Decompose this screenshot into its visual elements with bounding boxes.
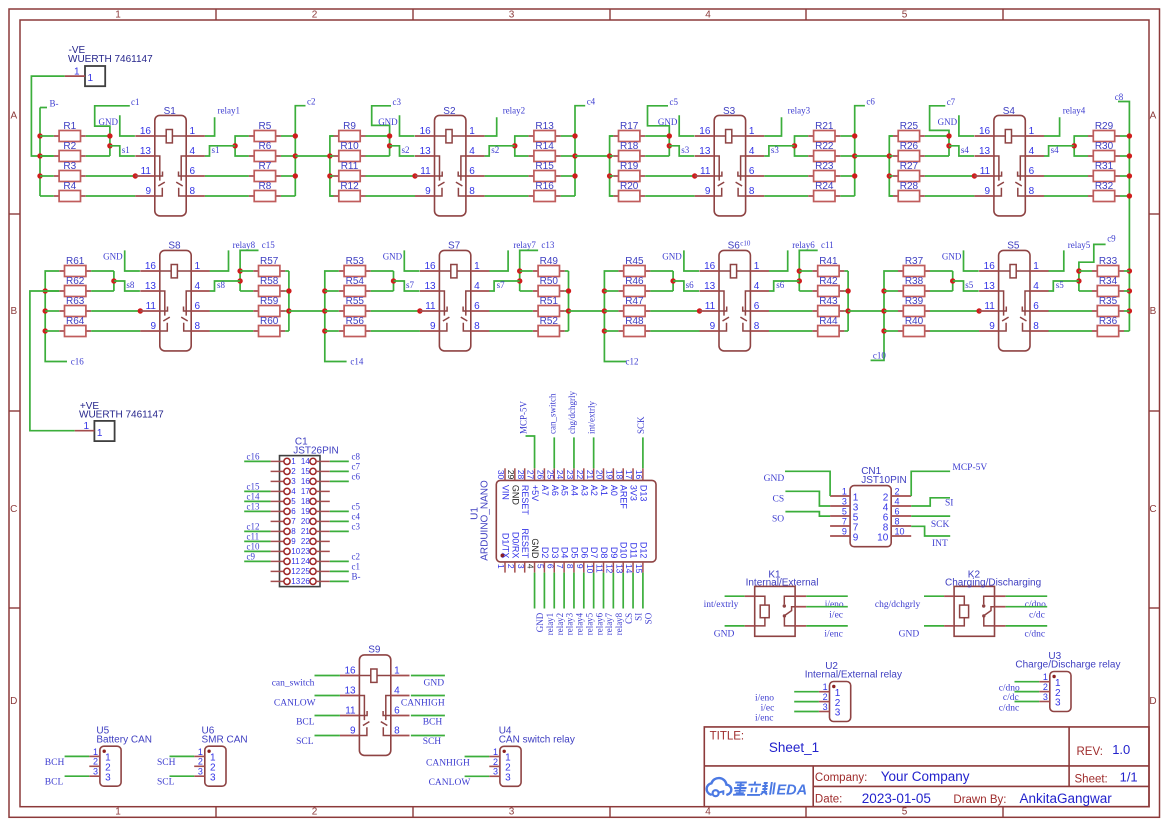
junction [286,288,291,293]
svg-text:D8: D8 [599,547,609,559]
resistor R46 [618,276,650,297]
junction [602,288,607,293]
svg-text:can_switch: can_switch [272,679,315,689]
svg-text:6: 6 [895,507,900,517]
svg-text:11: 11 [595,564,605,573]
svg-text:6: 6 [545,564,555,569]
resistor R56 [339,316,371,337]
svg-text:R33: R33 [1099,256,1118,267]
wire to pin 11 [645,175,695,177]
junction [697,308,702,313]
svg-text:R6: R6 [259,141,272,152]
svg-text:5: 5 [842,507,847,517]
svg-text:R50: R50 [540,276,559,287]
resistor R37 [898,256,930,277]
pin 14 C1 [301,457,330,466]
svg-text:Battery CAN: Battery CAN [96,734,152,745]
svg-text:CANLOW: CANLOW [429,778,471,788]
pin 3 CN1 [830,497,859,514]
svg-text:6: 6 [195,301,201,312]
svg-text:22: 22 [575,470,585,480]
wire s5 to pin 4 [1049,281,1079,291]
svg-text:2: 2 [312,807,318,818]
pin 17 U1 [624,468,638,501]
junction [1127,173,1132,178]
svg-text:13: 13 [344,686,356,697]
svg-text:BCL: BCL [296,718,315,728]
svg-text:3: 3 [198,767,203,777]
junction [845,288,850,293]
wire net c9 [244,560,270,562]
svg-text:relay3: relay3 [788,106,811,116]
svg-text:s2: s2 [491,145,499,155]
wire GND to pin 16 [959,115,974,136]
svg-text:A6: A6 [550,485,560,496]
pin 26 C1 [301,577,330,586]
wire resistor left pins [610,135,614,137]
wire pin 6 to R [485,175,529,177]
resistor R55 [339,296,371,317]
svg-text:A0: A0 [609,485,619,496]
svg-text:8: 8 [749,186,755,197]
svg-text:s7: s7 [497,280,506,290]
wire net SCH [411,735,445,737]
junction [667,133,672,138]
svg-text:A5: A5 [560,485,570,496]
wire left bus to c14 [325,271,347,362]
junction [237,278,242,283]
wire pin 8 to R [485,195,529,197]
junction [887,153,892,158]
svg-text:D4: D4 [560,547,570,559]
pin 10 CN1 [877,527,911,544]
svg-text:1: 1 [394,666,400,677]
wire link to next block [855,155,890,157]
svg-text:GND: GND [378,117,398,127]
svg-text:16: 16 [301,477,310,486]
svg-text:13: 13 [984,281,996,292]
pin 25 C1 [301,567,330,576]
wire net chg/dchgrly [924,595,944,597]
svg-text:D: D [10,696,17,707]
pin 20 C1 [301,517,330,526]
svg-text:R24: R24 [815,181,834,192]
svg-text:3: 3 [210,772,216,783]
pin 12 U1 [604,547,618,574]
svg-text:11: 11 [141,166,152,177]
pin 2 CN1 [883,487,911,504]
wire s1 to pin 4 [205,146,235,156]
wire net c5 [648,106,670,156]
junction [293,133,298,138]
svg-text:c15: c15 [247,482,260,492]
wire right bus [288,271,290,331]
wire pin 8 to R [764,195,808,197]
svg-text:c/dnc: c/dnc [999,703,1020,713]
resistor R19 [613,161,645,182]
wire pin 6 to R [1044,175,1088,177]
wire net c9 [1079,244,1106,291]
junction [417,308,422,313]
wire left bus to c10 [871,271,898,360]
svg-text:GND: GND [942,251,962,261]
svg-text:8: 8 [1033,321,1039,332]
wire pin 6 to R [1049,310,1093,312]
wire R right pins [565,270,569,272]
svg-text:c8: c8 [1115,92,1124,102]
svg-text:6: 6 [754,301,760,312]
svg-text:R25: R25 [900,121,919,132]
resistor R23 [808,161,840,182]
junction [391,278,396,283]
wire [465,775,490,777]
wire R right pins [281,135,295,137]
svg-text:c11: c11 [247,532,260,542]
wire R right pins [561,135,575,137]
wire net relay1 [543,573,545,609]
wire resistor left pins [325,290,339,292]
wire net c15 [244,490,270,492]
wire GND to pin 16 [679,115,694,136]
relay K1 [746,570,819,637]
svg-text:1: 1 [842,487,847,497]
junction [37,173,42,178]
pin 18 U1 [614,468,628,509]
wire net MCP-5V [526,436,535,468]
svg-text:i/enc: i/enc [824,630,842,640]
resistor R53 [339,256,371,277]
svg-text:R59: R59 [260,296,279,307]
wire to pin 11 [86,175,136,177]
svg-text:1: 1 [754,261,760,272]
pin 11 C1 [271,557,301,566]
junction [133,173,138,178]
wire net CANHIGH [411,695,445,697]
wire net i/ec [795,606,806,608]
svg-text:R39: R39 [905,296,924,307]
resistor R62 [59,276,91,297]
svg-text:c3: c3 [393,97,402,107]
svg-text:A3: A3 [579,485,589,496]
svg-text:c/dno: c/dno [999,683,1020,693]
svg-text:16: 16 [420,126,432,137]
svg-text:int/extrly: int/extrly [704,600,739,610]
wire R to junction [645,135,669,137]
svg-text:c/dno: c/dno [1025,600,1046,610]
svg-text:3: 3 [105,772,111,783]
wire link to next block [575,155,610,157]
svg-text:6: 6 [1033,301,1039,312]
svg-text:22: 22 [301,537,310,546]
wire to pin 11 [650,310,699,312]
resistor R2 [54,141,86,162]
logo JLC EDA [707,778,807,798]
svg-text:c/dc: c/dc [1029,610,1045,620]
wire net B- [330,580,349,582]
pin 8 C1 [271,527,297,536]
svg-text:16: 16 [699,126,711,137]
svg-text:Internal/External relay: Internal/External relay [805,670,902,681]
wire net BCH [411,715,445,717]
resistor R45 [618,256,650,277]
svg-text:R62: R62 [66,276,85,287]
resistor R9 [334,121,366,142]
svg-text:R26: R26 [900,141,919,152]
svg-text:A: A [10,111,17,122]
svg-text:10: 10 [585,564,595,574]
pin 6 U1 [545,547,559,573]
pin 9 U1 [575,547,589,573]
resistor R13 [529,121,561,142]
svg-text:B-: B- [50,99,59,109]
pin 24 C1 [301,557,330,566]
junction [976,308,981,313]
svg-text:13: 13 [699,146,711,157]
wire net SO [785,512,830,516]
svg-text:3: 3 [842,497,847,507]
svg-text:16: 16 [145,261,157,272]
pin 4 C1 [271,487,297,496]
wire to pin 9 [930,330,979,332]
svg-text:s3: s3 [681,145,690,155]
junction [293,173,298,178]
svg-text:C: C [1149,504,1156,515]
wire net relay5 [1049,250,1064,271]
wire [794,701,819,703]
svg-text:AREF: AREF [619,485,629,510]
pin 14 U1 [624,543,638,574]
wire net c8 bus [1118,102,1129,332]
svg-text:c3: c3 [352,522,361,532]
svg-text:3: 3 [1055,698,1061,709]
svg-text:6: 6 [190,166,196,177]
wire pin 6 to R [489,310,533,312]
wire [465,756,490,758]
wire [65,755,90,757]
svg-text:1: 1 [198,747,203,757]
junction [293,153,298,158]
svg-text:23: 23 [565,470,575,480]
svg-text:INT: INT [932,539,948,549]
svg-text:1: 1 [469,126,475,137]
wire pin 8 to R [489,330,533,332]
svg-text:c9: c9 [1107,234,1116,244]
title block [704,727,1149,807]
svg-text:2: 2 [93,757,98,767]
wire net relay3 [764,117,781,136]
wire pin 8 to R [1049,330,1093,332]
pin 5 C1 [271,497,297,506]
svg-text:8: 8 [1029,186,1035,197]
svg-text:R41: R41 [819,256,838,267]
wire net SCK [642,437,644,468]
resistor R44 [812,316,844,337]
svg-text:relay1: relay1 [218,106,241,116]
pin 26 U1 [536,468,550,496]
svg-text:Internal/External: Internal/External [746,578,819,589]
wire R to junction [86,135,110,137]
wire to pin 9 [645,195,695,197]
junction [667,143,672,148]
svg-text:D11: D11 [629,543,639,559]
svg-text:s1: s1 [212,145,220,155]
wire [794,691,819,693]
wire R right pins [285,270,289,272]
pin 10 C1 [271,547,301,556]
junction [37,153,42,158]
svg-text:2: 2 [493,757,498,767]
svg-text:3V3: 3V3 [629,485,639,501]
wire R right pins [844,270,848,272]
svg-text:13: 13 [704,281,716,292]
svg-text:BCL: BCL [45,778,64,788]
svg-text:R34: R34 [1099,276,1118,287]
wire net c4 [330,520,349,522]
junction [232,143,237,148]
svg-text:s4: s4 [961,145,970,155]
svg-text:8: 8 [474,321,480,332]
svg-text:SCK: SCK [931,520,950,530]
svg-text:MCP-5V: MCP-5V [519,400,529,434]
junction [327,173,332,178]
svg-text:4: 4 [705,10,711,21]
junction [852,133,857,138]
resistor R26 [893,141,925,162]
wire net c10 [244,550,270,552]
wire to pin 9 [86,195,136,197]
svg-text:GND: GND [103,251,123,261]
resistor R4 [54,181,86,202]
wire link to next block [569,310,605,312]
wire resistor left pins [889,135,893,137]
svg-text:GND: GND [424,679,445,689]
svg-text:10: 10 [291,547,300,556]
pin 28 U1 [516,468,530,515]
svg-text:1: 1 [1029,126,1035,137]
wire R right pins [840,135,854,137]
junction [517,278,522,283]
wire pin 8 to R [210,330,254,332]
svg-text:s7: s7 [406,280,415,290]
junction [797,278,802,283]
pin 8 U1 [565,547,579,573]
pin 16 U1 [634,468,648,501]
svg-text:s5: s5 [965,280,974,290]
svg-text:13: 13 [291,577,300,586]
pin 22 U1 [575,468,589,496]
svg-text:D9: D9 [609,547,619,559]
wire net c6 [330,480,349,482]
svg-text:GND: GND [535,612,545,632]
svg-text:s6: s6 [776,280,785,290]
svg-text:VIN: VIN [501,485,511,500]
resistor R49 [533,256,565,277]
resistor R41 [812,256,844,277]
svg-text:chg/dchgrly: chg/dchgrly [567,391,577,434]
svg-text:11: 11 [425,301,436,312]
wire B- bus [39,108,41,197]
svg-text:25: 25 [545,470,555,480]
svg-text:3: 3 [493,767,498,777]
svg-text:GND: GND [658,117,678,127]
svg-text:s4: s4 [1051,145,1060,155]
svg-text:SCH: SCH [423,737,442,747]
svg-text:GND: GND [383,251,403,261]
resistor R48 [618,316,650,337]
pin 9 CN1 [830,527,859,544]
svg-text:c6: c6 [352,472,361,482]
svg-text:S2: S2 [443,106,456,117]
resistor R25 [893,121,925,142]
svg-text:c7: c7 [947,97,956,107]
resistor R31 [1088,161,1120,182]
relay S1 [135,106,205,216]
wire s2 to pin 13 [390,146,415,156]
svg-text:1/1: 1/1 [1120,770,1138,785]
wire s4 right bus [1074,136,1088,156]
junction [572,133,577,138]
svg-text:1: 1 [496,564,506,569]
svg-text:REV:: REV: [1077,746,1103,758]
junction [946,133,951,138]
svg-text:s6: s6 [686,280,695,290]
svg-text:S9: S9 [368,644,381,655]
pin 11 U1 [595,547,609,573]
junction [107,143,112,148]
resistor R35 [1092,296,1124,317]
svg-text:RESET: RESET [520,528,530,559]
svg-text:CAN switch relay: CAN switch relay [499,735,575,746]
svg-text:R32: R32 [1095,181,1114,192]
svg-text:4: 4 [195,281,201,292]
svg-text:3: 3 [509,807,515,818]
svg-text:26: 26 [301,577,310,586]
svg-text:4: 4 [469,146,475,157]
svg-text:4: 4 [291,487,296,496]
wire net relay6 [593,573,595,609]
svg-text:i/eno: i/eno [755,694,774,704]
junction [881,288,886,293]
svg-text:6: 6 [1029,166,1035,177]
wire resistor left pins [40,135,54,137]
svg-text:SCL: SCL [296,737,314,747]
wire net c8 [330,460,349,462]
resistor R33 [1092,256,1124,277]
resistor R15 [529,161,561,182]
resistor R17 [613,121,645,142]
svg-text:1: 1 [97,428,103,439]
pin 3 C1 [271,477,297,486]
svg-text:C: C [10,504,17,515]
svg-text:11: 11 [146,301,157,312]
svg-text:i/enc: i/enc [755,714,773,724]
pin 1 CN1 [830,487,859,504]
svg-text:c9: c9 [247,552,256,562]
svg-text:R1: R1 [63,121,76,132]
junction [387,143,392,148]
svg-text:R29: R29 [1095,121,1114,132]
svg-text:19: 19 [301,507,310,516]
junction [286,308,291,313]
svg-text:6: 6 [394,706,400,717]
pin 15 C1 [301,467,330,476]
svg-text:9: 9 [853,532,859,543]
connector U4 [489,726,575,787]
svg-text:D3: D3 [550,547,560,559]
svg-text:10: 10 [895,527,905,537]
wire net relay2 [553,573,555,609]
svg-text:SO: SO [772,514,784,524]
